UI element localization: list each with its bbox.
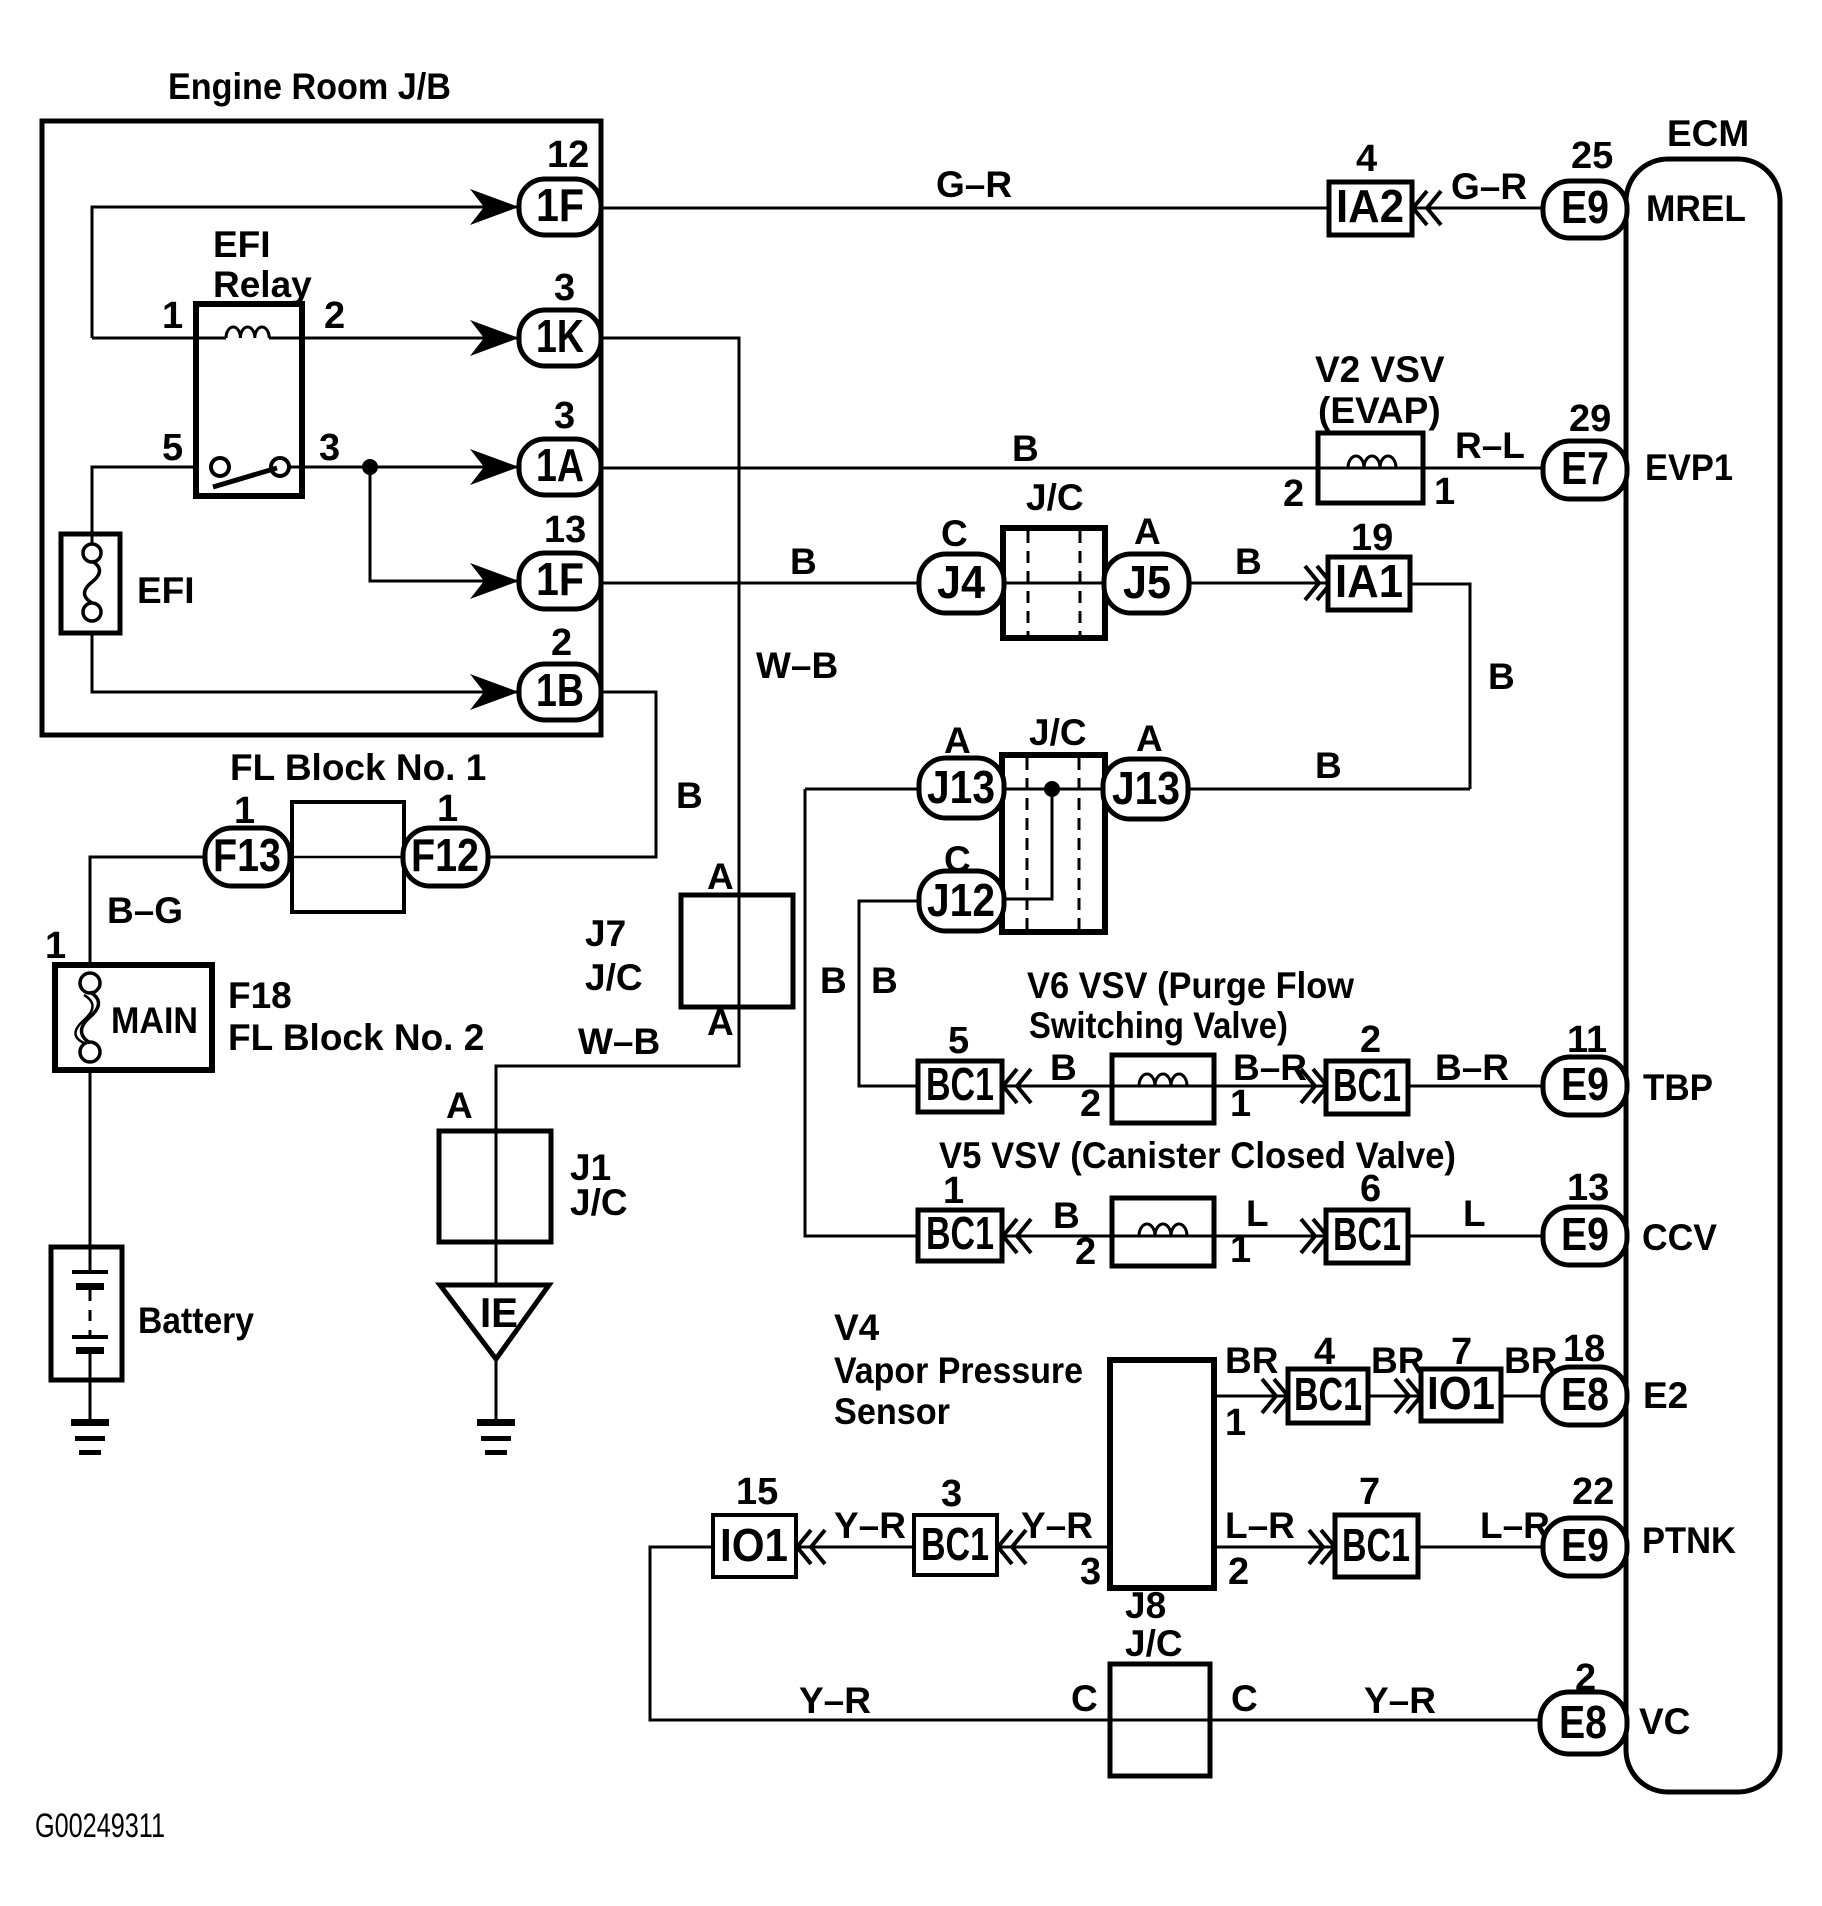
svg-text:2: 2: [1283, 473, 1304, 515]
svg-text:BC1: BC1: [1294, 1368, 1362, 1420]
svg-text:2: 2: [1080, 1083, 1101, 1125]
svg-text:IA2: IA2: [1336, 180, 1404, 232]
svg-text:MREL: MREL: [1646, 188, 1746, 229]
wire MREL G-R row: [601, 207, 1543, 210]
ECM box: [1626, 159, 1780, 1792]
svg-text:J4: J4: [937, 556, 985, 608]
ECM oval E9 MREL pin 25: [1543, 181, 1627, 238]
wire J13 left down to V5 row: [805, 789, 918, 1236]
svg-text:E8: E8: [1559, 1696, 1607, 1748]
svg-text:1K: 1K: [536, 310, 584, 362]
svg-text:Battery: Battery: [138, 1300, 254, 1341]
svg-text:BC1: BC1: [1333, 1059, 1401, 1111]
svg-text:2: 2: [324, 295, 345, 337]
wire IE triangle to ground: [495, 1359, 498, 1421]
wire IA1 right down to J13 row: [1410, 584, 1470, 789]
svg-text:A: A: [1134, 511, 1161, 552]
svg-text:R–L: R–L: [1455, 425, 1525, 466]
ECM oval E9 PTNK pin 22: [1543, 1518, 1627, 1576]
wire VC row through J8: [1110, 1719, 1543, 1722]
svg-text:B: B: [1488, 656, 1515, 697]
svg-text:BC1: BC1: [921, 1518, 989, 1570]
svg-text:VC: VC: [1639, 1701, 1690, 1742]
svg-text:E9: E9: [1561, 181, 1609, 233]
svg-text:29: 29: [1569, 398, 1611, 440]
svg-text:F12: F12: [411, 829, 479, 881]
EFI relay box: [196, 304, 302, 496]
relay coil: [226, 327, 269, 338]
svg-text:A: A: [446, 1085, 473, 1126]
svg-text:B: B: [871, 960, 898, 1001]
connector arrow 1K: [470, 320, 519, 356]
svg-text:A: A: [707, 1002, 734, 1043]
svg-text:C: C: [944, 839, 971, 880]
svg-text:E9: E9: [1561, 1519, 1609, 1571]
chevron into BC1 6: [1301, 1219, 1327, 1253]
wire 1F left to vertical: [92, 207, 519, 338]
svg-text:Relay: Relay: [213, 264, 312, 305]
svg-text:ECM: ECM: [1667, 113, 1749, 154]
wire switch pin5 to EFI fuse: [92, 467, 196, 544]
svg-text:Y–R: Y–R: [1364, 1680, 1436, 1721]
wire 1A to EVP1 row: [601, 467, 1543, 470]
svg-text:J13: J13: [1112, 762, 1180, 814]
chevron into BC1 1: [1003, 1219, 1031, 1253]
wire J/C internal J13 to J12: [1002, 789, 1052, 899]
svg-text:J5: J5: [1123, 556, 1171, 608]
connector arrow 1A: [470, 449, 519, 485]
svg-text:Sensor: Sensor: [834, 1391, 950, 1432]
chevron into BC1 4: [1262, 1379, 1288, 1413]
svg-text:3: 3: [1080, 1551, 1101, 1593]
svg-text:Y–R: Y–R: [834, 1505, 906, 1546]
svg-text:L–R: L–R: [1225, 1505, 1295, 1546]
svg-text:J13: J13: [927, 761, 995, 813]
junction dot J13: [1044, 781, 1060, 797]
svg-text:Switching Valve): Switching Valve): [1029, 1005, 1288, 1046]
connector oval 1F pin 13: [519, 553, 601, 609]
ECM oval E9 TBP pin 11: [1543, 1057, 1627, 1115]
svg-text:F13: F13: [213, 829, 281, 881]
wire switch pin3 to 1A: [289, 466, 519, 469]
connector oval J13 left: [919, 758, 1004, 818]
svg-text:IO1: IO1: [720, 1519, 788, 1571]
wire relay coil row to 1K: [92, 337, 226, 340]
svg-text:TBP: TBP: [1643, 1067, 1713, 1108]
svg-text:A: A: [707, 856, 734, 897]
svg-text:1F: 1F: [536, 553, 584, 605]
svg-text:2: 2: [1575, 1657, 1596, 1699]
wire 1B to F12: [487, 692, 656, 857]
svg-text:1: 1: [943, 1170, 964, 1212]
connector oval J4: [919, 554, 1004, 613]
connector oval J12: [919, 871, 1004, 931]
svg-text:E2: E2: [1643, 1375, 1688, 1416]
svg-text:BC1: BC1: [1333, 1208, 1401, 1260]
ground battery: [71, 1419, 109, 1426]
svg-text:2: 2: [1228, 1551, 1249, 1593]
svg-text:C: C: [941, 513, 968, 554]
ECM oval E8 E2 pin 18: [1543, 1367, 1627, 1425]
svg-text:E9: E9: [1561, 1058, 1609, 1110]
svg-text:6: 6: [1360, 1168, 1381, 1210]
svg-text:Y–R: Y–R: [1021, 1505, 1093, 1546]
svg-text:1: 1: [234, 790, 255, 832]
wire V6 row segments: [1002, 1085, 1112, 1088]
wire E2 row: [1214, 1395, 1288, 1398]
wire PTNK row right of V4: [1214, 1546, 1543, 1549]
svg-text:B–R: B–R: [1435, 1047, 1509, 1088]
wire J13 row: [805, 788, 1470, 791]
svg-text:J/C: J/C: [585, 957, 643, 998]
wire J12 left down to V6 row: [859, 901, 919, 1086]
battery: [51, 1247, 122, 1380]
svg-text:CCV: CCV: [1642, 1217, 1717, 1258]
svg-text:2: 2: [1360, 1019, 1381, 1061]
V6 VSV box with coil: [1112, 1055, 1214, 1123]
svg-text:2: 2: [551, 622, 572, 664]
svg-text:BR: BR: [1371, 1340, 1424, 1381]
svg-text:J/C: J/C: [570, 1182, 628, 1223]
svg-text:1: 1: [1434, 471, 1455, 513]
svg-text:EVP1: EVP1: [1645, 447, 1733, 488]
svg-text:1A: 1A: [536, 439, 584, 491]
svg-text:B: B: [1315, 745, 1342, 786]
Engine Room J/B box: [42, 121, 601, 735]
svg-text:BC1: BC1: [1342, 1519, 1410, 1571]
chevron into BC1 3: [998, 1530, 1026, 1564]
V2 VSV box with coil: [1318, 433, 1423, 503]
svg-text:1: 1: [162, 295, 183, 337]
svg-text:G00249311: G00249311: [35, 1807, 165, 1845]
V4 sensor box: [1110, 1360, 1214, 1588]
svg-text:E8: E8: [1561, 1368, 1609, 1420]
connector oval F13 pin 1: [205, 828, 290, 886]
svg-text:1F: 1F: [536, 179, 584, 231]
junction J/C box J13/J12: [1002, 755, 1105, 932]
svg-text:J/C: J/C: [1029, 712, 1087, 753]
svg-text:5: 5: [162, 427, 183, 469]
svg-text:C: C: [1071, 1678, 1098, 1719]
connector oval 1K pin 3: [519, 310, 601, 366]
svg-text:J/C: J/C: [1125, 1623, 1183, 1664]
svg-text:G–R: G–R: [936, 164, 1012, 205]
EFI fuse: [61, 534, 120, 633]
svg-text:BC1: BC1: [926, 1207, 994, 1259]
svg-text:5: 5: [948, 1020, 969, 1062]
wire V5 row segments: [1000, 1235, 1112, 1238]
svg-text:(EVAP): (EVAP): [1318, 390, 1441, 431]
svg-text:B–R: B–R: [1233, 1047, 1307, 1088]
svg-text:13: 13: [544, 509, 586, 551]
svg-text:EFI: EFI: [213, 224, 271, 265]
ground connector IE triangle: [440, 1285, 549, 1359]
svg-text:22: 22: [1572, 1471, 1614, 1513]
svg-text:18: 18: [1563, 1328, 1605, 1370]
svg-text:1: 1: [1225, 1402, 1246, 1444]
svg-text:V4: V4: [834, 1307, 880, 1348]
svg-text:15: 15: [736, 1471, 778, 1513]
svg-text:3: 3: [554, 395, 575, 437]
svg-text:B–G: B–G: [107, 890, 183, 931]
svg-text:11: 11: [1567, 1019, 1607, 1061]
FL Block No. 1 box: [292, 802, 404, 912]
svg-text:FL Block No. 1: FL Block No. 1: [230, 747, 486, 788]
svg-text:3: 3: [941, 1473, 962, 1515]
connector oval F12 pin 1: [403, 828, 488, 886]
wire 1K to W-B vertical down to J7: [496, 338, 739, 1285]
wire IO1 down to VC row: [650, 1547, 1110, 1720]
svg-text:13: 13: [1567, 1167, 1609, 1209]
svg-text:B: B: [676, 775, 703, 816]
svg-text:E9: E9: [1561, 1208, 1609, 1260]
junction J/C box mid: [1003, 528, 1105, 638]
svg-text:L–R: L–R: [1480, 1505, 1550, 1546]
svg-text:EFI: EFI: [137, 570, 195, 611]
svg-text:3: 3: [554, 267, 575, 309]
svg-text:12: 12: [547, 134, 589, 176]
svg-text:2: 2: [1075, 1231, 1096, 1273]
svg-text:BC1: BC1: [926, 1058, 994, 1110]
ECM oval E7 EVP1 pin 29: [1543, 441, 1627, 499]
svg-text:G–R: G–R: [1451, 166, 1527, 207]
svg-text:1: 1: [45, 925, 66, 967]
chevron into BC1 5: [1003, 1069, 1031, 1103]
svg-text:C: C: [1231, 1678, 1258, 1719]
svg-text:B: B: [820, 960, 847, 1001]
chevron into BC1 7: [1309, 1530, 1335, 1564]
svg-text:7: 7: [1359, 1471, 1380, 1513]
junction J8 J/C box: [1110, 1664, 1210, 1776]
svg-text:B: B: [1012, 428, 1039, 469]
svg-text:Vapor Pressure: Vapor Pressure: [834, 1350, 1083, 1391]
svg-text:1: 1: [1230, 1083, 1251, 1125]
svg-text:W–B: W–B: [578, 1021, 660, 1062]
svg-text:V6 VSV (Purge Flow: V6 VSV (Purge Flow: [1027, 965, 1354, 1006]
svg-text:J12: J12: [927, 874, 995, 926]
connector oval 1A pin 3: [519, 439, 601, 495]
svg-text:J/C: J/C: [1026, 477, 1084, 518]
svg-text:IA1: IA1: [1335, 555, 1403, 607]
wire 1F13 to J4 J5 IA1 row: [601, 582, 1328, 585]
ECM oval E9 CCV pin 13: [1543, 1207, 1627, 1265]
wire PTNK row left of V4: [713, 1546, 1110, 1549]
V5 VSV box with coil: [1112, 1198, 1214, 1266]
connector arrow 1F: [470, 189, 519, 225]
connector oval J5: [1104, 554, 1189, 613]
connector oval 1B pin 2: [519, 664, 601, 720]
svg-text:IO1: IO1: [1427, 1367, 1495, 1419]
node junction dot: [362, 459, 378, 475]
svg-text:J7: J7: [585, 913, 626, 954]
connector arrow 1F13: [470, 563, 519, 599]
svg-text:FL Block No. 2: FL Block No. 2: [228, 1017, 484, 1058]
svg-text:W–B: W–B: [756, 645, 838, 686]
wire node to 1F13: [370, 467, 519, 581]
wire MAIN to battery: [89, 1070, 92, 1247]
svg-text:L: L: [1463, 1193, 1486, 1234]
svg-text:J8: J8: [1125, 1585, 1166, 1626]
svg-text:A: A: [944, 720, 971, 761]
svg-text:1: 1: [1230, 1229, 1251, 1271]
svg-text:L: L: [1246, 1193, 1269, 1234]
connector oval 1F pin 12: [519, 179, 601, 235]
relay switch: [211, 458, 229, 476]
wire battery to ground: [89, 1380, 92, 1421]
svg-text:V2 VSV: V2 VSV: [1315, 349, 1445, 390]
svg-text:A: A: [1136, 718, 1163, 759]
svg-text:Engine Room J/B: Engine Room J/B: [168, 66, 451, 107]
connector arrow 1B: [470, 674, 519, 710]
svg-text:B: B: [790, 541, 817, 582]
chevron into BC1 2: [1301, 1069, 1327, 1103]
svg-text:E7: E7: [1561, 442, 1609, 494]
svg-text:F18: F18: [228, 975, 292, 1016]
connector oval J13 right: [1103, 759, 1188, 819]
svg-text:Y–R: Y–R: [799, 1680, 871, 1721]
svg-text:B: B: [1050, 1047, 1077, 1088]
svg-text:19: 19: [1351, 517, 1393, 559]
svg-text:PTNK: PTNK: [1642, 1520, 1736, 1561]
svg-text:3: 3: [319, 427, 340, 469]
wire EFI fuse bottom to 1B: [92, 633, 519, 692]
ECM oval E8 VC pin 2: [1540, 1692, 1627, 1754]
svg-text:B: B: [1053, 1195, 1080, 1236]
svg-text:MAIN: MAIN: [111, 1000, 198, 1041]
svg-text:BR: BR: [1225, 1340, 1278, 1381]
ground IE: [477, 1419, 515, 1426]
chevron into IA2: [1413, 191, 1441, 225]
svg-text:4: 4: [1356, 138, 1377, 180]
chevron into IA1: [1305, 566, 1331, 600]
svg-text:B: B: [1235, 541, 1262, 582]
svg-text:IE: IE: [480, 1289, 518, 1336]
chevron into IO1 7: [1395, 1379, 1421, 1413]
wire F13 to MAIN fuse: [90, 857, 205, 965]
svg-text:1: 1: [437, 788, 458, 830]
svg-text:1B: 1B: [536, 664, 584, 716]
chevron into IO1 15: [797, 1530, 825, 1564]
connector box IA1 pin 19: [1328, 557, 1410, 610]
svg-text:25: 25: [1571, 135, 1613, 177]
